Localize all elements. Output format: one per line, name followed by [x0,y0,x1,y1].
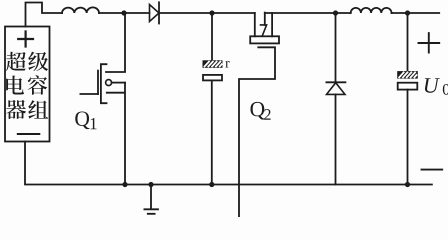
value label r [225,61,229,68]
wire: L2 to rail end [392,12,440,14]
node: D2 top junction [333,10,338,15]
wire: box bottom to bottom rail [25,142,432,185]
diode D2 cathode bar [326,81,345,83]
wire: Q2 to node D2 [265,12,351,14]
transistor Q2 arrow [261,25,267,36]
transistor Q1 body lead [112,82,125,84]
label Q1 [75,111,89,129]
inductor L2 [351,8,392,13]
node: Q1 source junction [122,182,127,187]
wire: box top to top rail [26,3,63,27]
wire: rail to D2 [335,13,337,82]
wire: D2 to bottom rail [335,94,337,184]
transistor Q1 gate bar [97,71,99,94]
ground symbol [144,185,158,214]
transistor Q2 gate lead [239,47,275,217]
capacitor r hatched plate [203,61,222,68]
transistor Q2 right stub [271,13,273,36]
wire: capacitor r to bottom rail [211,80,213,184]
minus terminal mark [18,133,40,135]
wire: D1 to Q2 [159,12,255,14]
wire: rail to output capacitor [407,13,409,72]
transistor Q2 middle lead [264,13,266,25]
output capacitor hatched plate [398,72,418,79]
diode D1 triangle [150,5,160,22]
node: ground junction [148,182,153,187]
capacitor r lower plate [203,75,222,81]
label Q2 [250,102,264,120]
transistor Q1 source lead [107,83,125,185]
inductor L1 [62,7,99,13]
diode D1 cathode bar [158,2,160,23]
node: output capacitor junction [405,182,410,187]
wire: output capacitor to bottom rail [407,90,409,185]
plus terminal mark [18,32,33,47]
transistor Q1 gate lead [80,93,98,95]
transistor Q1 body circle [106,80,112,86]
output plus mark [419,33,440,52]
transistor Q2 left stub [254,13,256,36]
diode D2 triangle [327,83,346,95]
wire: node to capacitor r [211,13,213,61]
supercapacitor bank box [5,27,50,142]
node: output cap top junction [405,10,410,15]
label 超级电容器组 [6,52,48,119]
node: D1 / capacitor r junction [209,10,214,15]
output capacitor lower plate [398,83,418,90]
output minus mark [422,169,443,171]
transistor Q2 channel box [250,36,279,43]
transistor Q1 drain lead [106,13,125,72]
node: L1 / Q1 drain / D1 junction [121,10,126,15]
wire: L1 to diode D1 [99,12,150,14]
transistor Q1 channel bracket [101,64,107,103]
label U0 [425,78,440,93]
node: capacitor r junction [209,182,214,187]
